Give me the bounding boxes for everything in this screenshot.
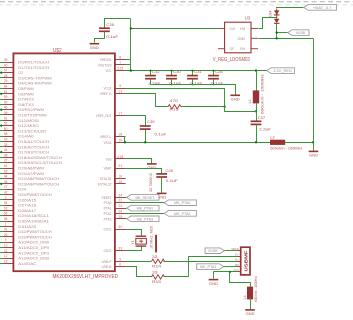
svg-text:U3: U3 (245, 16, 251, 21)
pin 21 VBAT (115, 168, 126, 170)
svg-text:C30: C30 (173, 69, 181, 74)
svg-text:C38: C38 (106, 22, 114, 27)
pin 43 D15/A1/TOUCH (4, 141, 14, 143)
svg-text:D24: D24 (18, 188, 26, 192)
svg-text:GND: GND (309, 154, 318, 158)
wire net D23/A9/PWM/TOUCH (0, 183, 4, 185)
pin 19 VSSA (115, 142, 126, 144)
pin 6 USB-M (115, 266, 126, 268)
wire VOUT3V3 pin to vertical (126, 64, 131, 66)
svg-text:56: 56 (4, 217, 8, 221)
wire net A14/DAC (0, 263, 4, 265)
svg-text:VSS: VSS (106, 157, 112, 161)
pin 28 D3/CAN-TX/PWM (4, 77, 14, 79)
wire to VUSB flag (277, 32, 288, 34)
svg-text:63: 63 (4, 169, 8, 173)
svg-text:MK_PTA2: MK_PTA2 (174, 211, 190, 216)
svg-text:16 MHZ, M20: 16 MHZ, M20 (150, 226, 154, 249)
svg-text:Y1: Y1 (131, 240, 135, 244)
pin 62 D20/A6/PWM (4, 168, 14, 170)
pin 46 D9/RX2/PWM (4, 109, 14, 111)
svg-text:61: 61 (4, 90, 8, 94)
svg-text:MK_PTA1: MK_PTA1 (200, 264, 216, 269)
svg-text:D8/TX3: D8/TX3 (18, 103, 33, 107)
svg-text:10: 10 (4, 244, 8, 248)
svg-text:VREGIN: VREGIN (100, 58, 112, 62)
wire VCC 3.3V rail (126, 70, 267, 72)
ground right rail (309, 150, 319, 152)
svg-text:54: 54 (4, 201, 8, 205)
wire C37 to analog ground rail (256, 125, 258, 143)
wire net D12/MISO (0, 125, 4, 127)
svg-text:USB-P: USB-P (102, 260, 112, 264)
svg-text:OF: OF (230, 47, 236, 51)
junction VREGIN net (130, 27, 132, 29)
wire crystal Y1 to OSC2 (126, 247, 142, 251)
wire R14 to USB D+ (164, 261, 238, 263)
wire net D20/A6/PWM (0, 168, 4, 170)
svg-text:VUSB: VUSB (208, 248, 218, 253)
svg-text:D26/A15: D26/A15 (18, 198, 36, 202)
wire bypass cap ground rail (151, 85, 236, 95)
net flag MK_PTA2 (164, 211, 196, 217)
svg-text:39: 39 (4, 58, 8, 62)
capacitor C38 0.1uF (99, 28, 110, 31)
pin 61 D6/PWM (4, 93, 14, 95)
svg-text:19: 19 (118, 138, 122, 142)
ground below C38 (90, 43, 100, 45)
pin 49 D10/TX2/PWM (4, 114, 14, 116)
svg-text:EXTAL32: EXTAL32 (98, 182, 112, 186)
svg-text:A11/ADC0_DP0: A11/ADC0_DP0 (18, 246, 49, 250)
wire C26 to ground (161, 177, 163, 193)
svg-text:62: 62 (4, 164, 8, 168)
wire net D18/A4/SDA0/TOUCH (0, 157, 4, 159)
wire net D21/A7/PWM (0, 173, 4, 175)
pin 60 D8/TX3 (4, 104, 14, 106)
pin 11 A12/ADC0_DP3 (4, 252, 14, 254)
svg-text:OSC1: OSC1 (104, 228, 112, 232)
wire to USB ground symbol (213, 272, 215, 279)
pin 44 D22/A8/PWM/TOUCH (4, 178, 14, 180)
svg-text:GND: GND (90, 46, 99, 50)
net flag 3.3V_REG (267, 68, 295, 74)
resistor R13 470 (168, 105, 181, 109)
dual schottky diode U$4 (274, 10, 280, 14)
wire VCC to C32 (150, 71, 152, 76)
pin 41 D32/PWM/TOUCH (4, 231, 14, 233)
svg-text:22: 22 (118, 199, 122, 203)
wire PTA0 to flag (126, 202, 165, 204)
svg-text:D14/A0: D14/A0 (18, 135, 33, 139)
svg-text:17: 17 (118, 112, 122, 116)
svg-text:33: 33 (152, 254, 158, 259)
junction dots on cap ground rail (171, 83, 173, 85)
capacitor C39 0.1uF (140, 126, 151, 129)
svg-text:44: 44 (4, 175, 8, 179)
net flag MK_PTA3 (127, 216, 159, 222)
svg-text:51: 51 (4, 116, 8, 120)
svg-text:600ohm - 100MHz: 600ohm - 100MHz (270, 146, 302, 151)
wire VUSB flag to VBUS pin (225, 250, 238, 252)
svg-text:PTA1: PTA1 (104, 207, 112, 211)
wire net D32/PWM/TOUCH (0, 231, 4, 233)
wire USB-M to R15 (126, 267, 152, 277)
pin 10 A11/ADC0_DP0 (4, 247, 14, 249)
pin 38 D18/A4/SDA0/TOUCH (4, 157, 14, 159)
svg-text:C37: C37 (258, 115, 266, 120)
wire VCC to C30 (171, 71, 173, 76)
svg-text:A14/DAC: A14/DAC (18, 262, 36, 266)
svg-text:D6/PWM: D6/PWM (18, 92, 33, 96)
capacitor C30 0.1uF (166, 76, 177, 79)
svg-text:34: 34 (118, 193, 122, 197)
svg-text:OSC2: OSC2 (104, 249, 112, 253)
svg-text:MK_PTA0: MK_PTA0 (174, 200, 191, 205)
ground for USB (209, 279, 219, 281)
svg-text:VUSB: VUSB (296, 30, 306, 35)
pin 25 PTA3 (115, 218, 126, 220)
USB pin GND (237, 271, 241, 273)
wire PTA3 to flag (126, 218, 127, 220)
svg-text:23: 23 (118, 204, 122, 208)
USB pin D+ (237, 261, 241, 263)
svg-text:12: 12 (4, 254, 8, 258)
svg-text:D20/A6/PWM: D20/A6/PWM (18, 166, 44, 170)
wire net D29/A18/SCL1 (0, 215, 4, 217)
net flag MK_PTA0 (164, 200, 196, 206)
svg-text:MK_RESET: MK_RESET (135, 195, 154, 200)
wire down to ground symbol (313, 143, 315, 151)
svg-text:C39: C39 (147, 119, 155, 124)
svg-text:GND: GND (209, 282, 218, 286)
pin 32 OSC1 (115, 229, 126, 231)
wire net D15/A1/TOUCH (0, 141, 4, 143)
svg-text:43: 43 (4, 138, 8, 142)
net flag MK_PTA1 (127, 205, 159, 211)
ground below L4 (245, 309, 255, 311)
svg-text:18: 18 (4, 259, 8, 263)
wire VCC to C28 (213, 71, 215, 76)
capacitor C26 0.1uF (156, 174, 167, 177)
wire net D0/RX1/TOUCH (0, 62, 4, 64)
pin 57 D2 (4, 72, 14, 74)
pin 37 D19/A5/SCL0/TOUCH (4, 162, 14, 164)
pin 58 D14/A0 (4, 136, 14, 138)
svg-text:11: 11 (4, 249, 8, 253)
svg-text:D11/MOSI: D11/MOSI (18, 119, 39, 123)
pin 8 VREGIN (115, 59, 126, 61)
svg-text:R13: R13 (170, 107, 180, 112)
net flag VUSB at USB connector (205, 248, 224, 254)
wire jog to L1 bottom node (225, 107, 257, 112)
svg-text:26: 26 (4, 233, 8, 237)
pin 29 D4/CAN-RX/PWM (4, 83, 14, 85)
capacitor C28 0.1uF (208, 76, 219, 79)
svg-text:USB-M: USB-M (102, 265, 112, 269)
junction ground rail meets vertical (312, 141, 314, 143)
svg-text:33: 33 (118, 246, 122, 250)
svg-text:D12/MISO: D12/MISO (18, 124, 39, 128)
svg-text:VCCA: VCCA (104, 87, 112, 91)
svg-text:D16/A2/TOUCH: D16/A2/TOUCH (18, 145, 49, 149)
pin 5 USB-P (115, 261, 126, 263)
wire USB GND pin (214, 271, 238, 273)
svg-text:D-: D- (235, 252, 239, 256)
svg-text:18: 18 (118, 133, 122, 137)
svg-text:D19/A5/SCL0/TOUCH: D19/A5/SCL0/TOUCH (18, 161, 62, 165)
wire net D17/A3/TOUCH (0, 152, 4, 154)
svg-text:5: 5 (119, 257, 121, 261)
svg-text:16: 16 (118, 175, 122, 179)
wire C39 to analog ground rail (145, 130, 147, 143)
wire net D31/A20 (0, 226, 4, 228)
pin 23 PTA1 (115, 208, 126, 210)
wire net A10/ADC0_DM0 (0, 242, 4, 244)
pin 7 VOUT3V3 (115, 64, 126, 66)
wire regulator OUT to VREGIN junction (131, 28, 219, 30)
svg-text:GND: GND (231, 98, 240, 102)
wire VREF_OUT to C39 (126, 116, 146, 127)
svg-text:40: 40 (4, 63, 8, 67)
svg-text:R15: R15 (152, 279, 162, 284)
svg-text:29: 29 (4, 79, 8, 83)
svg-text:41: 41 (4, 228, 8, 232)
svg-text:+BAT_3.7: +BAT_3.7 (313, 5, 332, 10)
wire net D6/PWM (0, 93, 4, 95)
wire VBAT to C26 (126, 169, 162, 174)
svg-text:1: 1 (5, 222, 7, 226)
IC U$2 MK20DX256VLH7_IMPROVED microcontroller body (13, 53, 115, 271)
pin 51 D11/MOSI (4, 120, 14, 122)
svg-text:D1/TX1/TOUCH: D1/TX1/TOUCH (18, 66, 49, 70)
junction C39 (144, 141, 146, 143)
svg-text:VREF-H: VREF-H (100, 92, 112, 96)
wire net D3/CAN-TX/PWM (0, 77, 4, 79)
wire net D25/PWM/TOUCH (0, 194, 4, 196)
svg-text:6: 6 (119, 263, 121, 267)
svg-text:XTAL32: XTAL32 (100, 177, 112, 181)
wire L2 to digital ground (285, 142, 314, 144)
crystal Y1 16 MHz (136, 235, 147, 237)
junction VCC rail to L1 (255, 69, 257, 71)
svg-text:D9/RX2/PWM: D9/RX2/PWM (18, 108, 44, 112)
wire VREF-H pin to R13 (126, 94, 169, 107)
svg-text:60: 60 (4, 100, 8, 104)
net flag MK_RESET (127, 195, 159, 201)
pin 24 PTA2 (115, 213, 126, 215)
svg-text:15: 15 (118, 180, 122, 184)
svg-text:VCC: VCC (106, 69, 112, 73)
svg-text:C32: C32 (152, 69, 160, 74)
svg-text:D0/RX1/TOUCH: D0/RX1/TOUCH (18, 60, 49, 64)
net flag VUSB (288, 30, 309, 36)
svg-text:3,23: 3,23 (117, 67, 123, 71)
svg-text:42: 42 (4, 191, 8, 195)
wire VCC rail down to L1 (256, 71, 258, 91)
wire R13 to VCCA junction (181, 106, 225, 108)
svg-text:VREF-L: VREF-L (100, 135, 112, 139)
junction VUSB (276, 31, 278, 33)
svg-text:D5/PWM: D5/PWM (18, 87, 33, 91)
junction VREF-L (124, 141, 126, 143)
svg-text:58: 58 (4, 132, 8, 136)
wire C30 to ground rail (171, 79, 173, 85)
svg-text:D4/CAN-RX/PWM: D4/CAN-RX/PWM (18, 82, 51, 86)
svg-text:D3/CAN-TX/PWM: D3/CAN-TX/PWM (18, 76, 51, 80)
ground for bypass caps (230, 94, 240, 96)
svg-text:D25/PWM/TOUCH: D25/PWM/TOUCH (18, 193, 52, 197)
wire OSC1 to crystal Y1 (126, 230, 142, 237)
svg-text:V_REG_LDOSM03: V_REG_LDOSM03 (213, 57, 250, 63)
svg-text:L2: L2 (270, 134, 274, 139)
pin 55 D29/A18/SCL1 (4, 215, 14, 217)
pin 26 D33/PWM/TOUCH (4, 236, 14, 238)
wire net D4/CAN-RX/PWM (0, 83, 4, 85)
wire net D8/TX3 (0, 104, 4, 106)
svg-text:D7/RX3: D7/RX3 (18, 98, 33, 102)
svg-text:2.2uF: 2.2uF (259, 126, 272, 131)
resistor R14 33 (152, 259, 165, 263)
svg-text:600ohm - 100MHz: 600ohm - 100MHz (259, 74, 264, 114)
svg-text:36: 36 (4, 148, 8, 152)
wire diode bottom down to GND row (276, 24, 278, 39)
ferrite bead L4 (247, 287, 252, 299)
svg-text:32: 32 (118, 225, 122, 229)
ground for VSS (147, 163, 157, 165)
svg-text:7: 7 (119, 61, 121, 65)
svg-text:46: 46 (4, 106, 8, 110)
svg-text:50: 50 (4, 127, 8, 131)
pin 15 EXTAL32 (115, 183, 126, 185)
svg-text:4,24: 4,24 (117, 155, 123, 159)
svg-text:37: 37 (4, 159, 8, 163)
USB connector USBMF (241, 247, 250, 275)
wire C38 bottom to ground (95, 32, 105, 43)
svg-text:57: 57 (4, 69, 8, 73)
svg-text:45: 45 (4, 180, 8, 184)
voltage regulator U3 V_REG_LDOSM03 (225, 22, 251, 53)
wire net D26/A15 (0, 199, 4, 201)
wire net D19/A5/SCL0/TOUCH (0, 162, 4, 164)
wire C38 top to VREGIN net corner (105, 19, 131, 29)
svg-text:D30/A19/SDA1: D30/A19/SDA1 (18, 219, 49, 223)
pin 13 VREF-H (115, 93, 126, 95)
pin 17 VREF_OUT (115, 115, 126, 117)
svg-text:D10/TX2/PWM: D10/TX2/PWM (18, 113, 46, 117)
wire L4 to ground (250, 299, 252, 310)
junction L1/VCCA/C37 node (255, 110, 257, 112)
net flag +BAT_3.7 (304, 5, 337, 11)
svg-text:9: 9 (119, 84, 121, 88)
wire net D5/PWM (0, 88, 4, 90)
svg-text:R14: R14 (152, 263, 162, 268)
svg-text:33: 33 (152, 270, 158, 275)
svg-text:GND: GND (238, 37, 246, 41)
svg-text:D33/PWM/TOUCH: D33/PWM/TOUCH (18, 235, 52, 239)
capacitor C32 2.2uF (145, 76, 156, 79)
svg-text:59: 59 (4, 95, 8, 99)
junction dots on left edge nets (0, 72, 2, 74)
svg-text:21: 21 (118, 164, 122, 168)
pin 3,23 VCC (115, 70, 126, 72)
resistor R15 33 (152, 275, 165, 279)
pin 63 D21/A7/PWM (4, 173, 14, 175)
wire RESET to flag (126, 197, 127, 199)
svg-text:35: 35 (4, 143, 8, 147)
pin 1 D31/A20 (4, 226, 14, 228)
wire net D33/PWM/TOUCH (0, 236, 4, 238)
svg-text:PTA0: PTA0 (104, 201, 112, 205)
junction diode branch on GND row (276, 37, 278, 39)
svg-text:38: 38 (4, 153, 8, 157)
svg-text:0.1uF: 0.1uF (154, 132, 167, 137)
svg-text:D32/PWM/TOUCH: D32/PWM/TOUCH (18, 230, 52, 234)
pin 52 D12/MISO (4, 125, 14, 127)
pin 4,24 VSS (115, 158, 126, 160)
svg-text:D13/SCK/LED: D13/SCK/LED (18, 129, 47, 133)
svg-text:D27/A16: D27/A16 (18, 204, 36, 208)
wire PTA1 to flag (126, 208, 127, 210)
svg-text:D22/A8/PWM/TOUCH: D22/A8/PWM/TOUCH (18, 177, 59, 181)
pin 36 D17/A3/TOUCH (4, 152, 14, 154)
svg-text:D17/A3/TOUCH: D17/A3/TOUCH (18, 151, 49, 155)
wire USB shield to L4 (230, 272, 251, 287)
svg-text:0.1uF: 0.1uF (106, 34, 119, 39)
svg-text:D+: D+ (235, 258, 239, 262)
svg-text:27: 27 (4, 185, 8, 189)
wire U3 IN to diode mid node (259, 18, 277, 29)
svg-text:52: 52 (4, 122, 8, 126)
pin 27 D24 (4, 189, 14, 191)
svg-text:8: 8 (119, 56, 121, 60)
svg-text:D18/A4/SDA0/TOUCH: D18/A4/SDA0/TOUCH (18, 156, 62, 160)
svg-text:RESET: RESET (102, 196, 112, 200)
wire C32 to ground rail (150, 79, 152, 85)
USB pin D- (237, 256, 241, 258)
wire net D16/A2/TOUCH (0, 146, 4, 148)
wire net D22/A8/PWM/TOUCH (0, 178, 4, 180)
wire VSSA analog ground rail (126, 142, 271, 144)
pin 45 D23/A9/PWM/TOUCH (4, 183, 14, 185)
svg-text:3.3V_REG: 3.3V_REG (273, 68, 292, 73)
svg-text:C31: C31 (194, 69, 202, 74)
svg-text:GND: GND (246, 312, 255, 316)
svg-text:C26: C26 (165, 168, 173, 173)
junction USB ground (229, 271, 231, 273)
wire net A12/ADC0_DP3 (0, 252, 4, 254)
pin 54 D27/A16 (4, 205, 14, 207)
pin 50 D13/SCK/LED (4, 130, 14, 132)
pin 59 D7/RX3 (4, 99, 14, 101)
wire net D14/A0 (0, 136, 4, 138)
wire U3 GND pin to right vertical (259, 38, 314, 40)
junction VCC at x=131 (130, 69, 132, 71)
wire vertical VREGIN/VOUT3V3/VCC tie at x=131 (130, 19, 132, 71)
wire net D1/TX1/TOUCH (0, 67, 4, 69)
wire net D10/TX2/PWM (0, 114, 4, 116)
wire L1 to analog node (256, 103, 258, 112)
wire net A11/ADC0_DP0 (0, 247, 4, 249)
svg-text:32.768KHZ: 32.768KHZ (149, 172, 153, 192)
wire net A13/ADC0_DM3 (0, 258, 4, 260)
pin 9 A10/ADC0_DM0 (4, 242, 14, 244)
pin 12 A13/ADC0_DM3 (4, 258, 14, 260)
pin 16 XTAL32 (115, 178, 126, 180)
svg-text:VOUT3V3: VOUT3V3 (98, 63, 112, 67)
svg-text:MK_PTA3: MK_PTA3 (137, 216, 153, 221)
svg-text:25: 25 (118, 215, 122, 219)
